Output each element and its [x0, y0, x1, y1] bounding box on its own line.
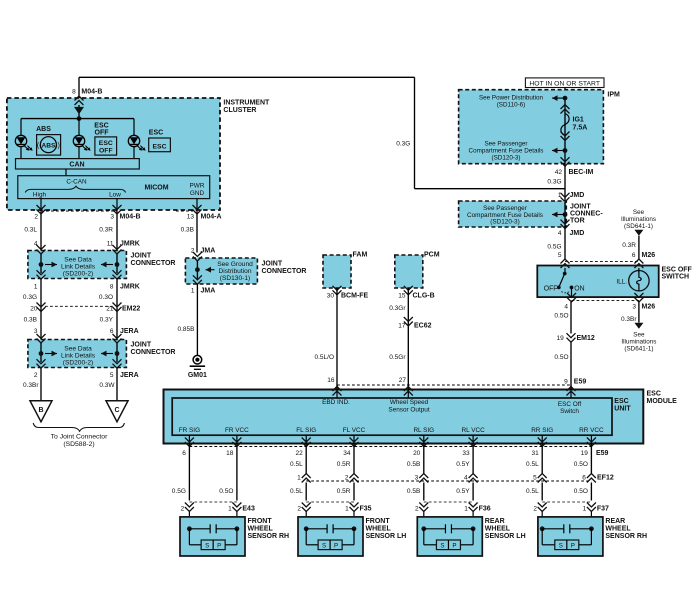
svg-text:16: 16 [327, 377, 335, 384]
svg-text:OFF: OFF [544, 285, 558, 292]
svg-text:FL VCC: FL VCC [343, 427, 366, 434]
svg-text:0.3W: 0.3W [99, 382, 115, 389]
svg-text:To Joint Connector: To Joint Connector [51, 434, 108, 441]
svg-text:22: 22 [295, 450, 303, 457]
svg-text:S: S [559, 543, 563, 550]
svg-text:JMD: JMD [570, 230, 585, 237]
svg-text:FRONT: FRONT [366, 518, 391, 525]
svg-text:RL VCC: RL VCC [461, 427, 485, 434]
svg-text:0.3O: 0.3O [99, 294, 113, 301]
svg-text:0.3Br: 0.3Br [23, 382, 39, 389]
svg-text:CONNEC-: CONNEC- [570, 211, 603, 218]
svg-text:30: 30 [327, 293, 335, 300]
svg-text:JOINT: JOINT [570, 204, 591, 211]
svg-text:CONNECTOR: CONNECTOR [262, 268, 307, 275]
svg-text:High: High [33, 191, 47, 198]
svg-text:(SD641-1): (SD641-1) [624, 346, 653, 353]
svg-text:20: 20 [30, 306, 38, 313]
svg-text:FL SIG: FL SIG [296, 427, 316, 434]
svg-text:FAM: FAM [353, 252, 368, 259]
svg-text:ESC Off: ESC Off [558, 401, 582, 408]
svg-text:1: 1 [464, 506, 468, 513]
svg-text:See Ground: See Ground [217, 261, 253, 268]
svg-text:SENSOR RH: SENSOR RH [605, 533, 647, 540]
svg-text:RR SIG: RR SIG [531, 427, 553, 434]
svg-text:TOR: TOR [570, 218, 585, 225]
svg-text:C-CAN: C-CAN [66, 179, 87, 186]
svg-text:2: 2 [34, 372, 38, 379]
svg-text:0.5Y: 0.5Y [456, 488, 470, 495]
svg-text:IG1: IG1 [573, 117, 584, 124]
svg-text:OFF: OFF [95, 130, 110, 137]
svg-text:See Data: See Data [64, 257, 92, 264]
svg-text:BCM-FE: BCM-FE [341, 293, 369, 300]
svg-text:ESC: ESC [153, 143, 167, 150]
svg-text:CLG-B: CLG-B [413, 293, 435, 300]
svg-text:M04-B: M04-B [81, 88, 102, 95]
svg-text:M26: M26 [642, 252, 656, 259]
svg-text:0.5B: 0.5B [407, 488, 420, 495]
svg-text:E59: E59 [574, 378, 587, 385]
svg-text:Link Details: Link Details [61, 353, 96, 360]
svg-text:EM22: EM22 [122, 306, 140, 313]
svg-text:WHEEL: WHEEL [248, 525, 274, 532]
svg-text:(SD120-3): (SD120-3) [491, 154, 520, 161]
svg-text:WHEEL: WHEEL [485, 525, 511, 532]
svg-text:Compartment Fuse Details: Compartment Fuse Details [469, 147, 544, 154]
svg-text:E43: E43 [242, 506, 255, 513]
svg-text:0.5G: 0.5G [547, 244, 561, 251]
svg-text:See: See [633, 209, 645, 216]
svg-text:(SD200-2): (SD200-2) [63, 271, 93, 278]
svg-text:31: 31 [531, 450, 539, 457]
svg-text:8: 8 [72, 88, 76, 95]
svg-text:(SD641-1): (SD641-1) [624, 223, 653, 230]
svg-text:F35: F35 [360, 506, 372, 513]
svg-text:OFF: OFF [99, 147, 113, 154]
svg-text:0.5O: 0.5O [219, 488, 233, 495]
svg-text:0.3B: 0.3B [181, 227, 194, 234]
svg-text:CAN: CAN [69, 162, 84, 169]
svg-text:JOINT: JOINT [262, 260, 283, 267]
svg-text:HOT IN ON OR START: HOT IN ON OR START [529, 80, 600, 87]
svg-text:ESC OFF: ESC OFF [662, 266, 693, 273]
svg-text:IPM: IPM [607, 91, 620, 98]
svg-text:0.3Gr: 0.3Gr [389, 305, 406, 312]
svg-text:0.5G: 0.5G [172, 488, 186, 495]
svg-text:B: B [38, 407, 43, 414]
svg-text:0.5B: 0.5B [407, 461, 420, 468]
svg-text:9: 9 [564, 378, 568, 385]
svg-text:19: 19 [581, 450, 589, 457]
svg-text:0.3G: 0.3G [396, 140, 410, 147]
svg-text:2: 2 [297, 506, 301, 513]
svg-text:(SD588-2): (SD588-2) [63, 441, 94, 448]
svg-text:4: 4 [564, 303, 568, 310]
svg-text:BEC-IM: BEC-IM [569, 169, 594, 176]
svg-text:ON: ON [574, 285, 584, 292]
svg-text:1: 1 [345, 506, 349, 513]
svg-text:JERA: JERA [120, 372, 139, 379]
svg-text:Illuminations: Illuminations [621, 339, 656, 346]
svg-text:M04-A: M04-A [201, 214, 222, 221]
svg-text:EBD IND.: EBD IND. [322, 399, 350, 406]
svg-text:Illuminations: Illuminations [621, 216, 656, 223]
svg-text:JMRK: JMRK [120, 284, 140, 291]
svg-text:0.5Y: 0.5Y [456, 461, 470, 468]
svg-text:Sensor Output: Sensor Output [388, 406, 429, 413]
svg-text:M04-B: M04-B [120, 214, 141, 221]
svg-text:0.5O: 0.5O [554, 354, 568, 361]
svg-text:13: 13 [187, 214, 195, 221]
svg-text:0.5L: 0.5L [290, 461, 303, 468]
svg-text:JMRK: JMRK [120, 241, 140, 248]
svg-text:SENSOR LH: SENSOR LH [366, 533, 407, 540]
svg-text:WHEEL: WHEEL [366, 525, 392, 532]
svg-text:0.5O: 0.5O [574, 461, 588, 468]
svg-text:((: (( [37, 141, 42, 150]
svg-text:1: 1 [228, 506, 232, 513]
svg-text:ABS: ABS [36, 126, 51, 133]
svg-text:Link Details: Link Details [61, 264, 96, 271]
svg-text:JERA: JERA [120, 328, 139, 335]
svg-text:EF12: EF12 [597, 474, 614, 481]
svg-text:5: 5 [110, 372, 114, 379]
svg-text:(SD120-3): (SD120-3) [490, 219, 519, 226]
svg-text:15: 15 [398, 293, 406, 300]
svg-text:33: 33 [462, 450, 470, 457]
svg-text:CONNECTOR: CONNECTOR [131, 349, 176, 356]
svg-text:4: 4 [558, 230, 562, 237]
svg-text:CONNECTOR: CONNECTOR [131, 260, 176, 267]
svg-text:RL SIG: RL SIG [413, 427, 434, 434]
svg-text:1: 1 [191, 287, 195, 294]
svg-text:INSTRUMENT: INSTRUMENT [223, 100, 270, 107]
svg-text:5: 5 [533, 474, 537, 481]
svg-text:EC62: EC62 [414, 323, 432, 330]
svg-text:6: 6 [632, 252, 636, 259]
svg-text:0.5L: 0.5L [290, 488, 303, 495]
svg-text:C: C [114, 407, 119, 414]
svg-text:RR VCC: RR VCC [579, 427, 604, 434]
svg-text:0.3G: 0.3G [547, 179, 561, 186]
svg-text:UNIT: UNIT [614, 406, 631, 413]
svg-text:ABS: ABS [41, 142, 56, 149]
svg-text:JOINT: JOINT [131, 342, 152, 349]
svg-text:REAR: REAR [485, 518, 505, 525]
svg-text:Switch: Switch [560, 408, 579, 415]
svg-text:20: 20 [413, 450, 421, 457]
svg-text:(SD110-6): (SD110-6) [497, 102, 526, 109]
svg-text:42: 42 [555, 169, 563, 176]
svg-text:ESC: ESC [94, 123, 108, 130]
svg-text:FRONT: FRONT [248, 518, 273, 525]
svg-text:F37: F37 [597, 506, 609, 513]
svg-text:19: 19 [556, 335, 564, 342]
svg-text:SENSOR LH: SENSOR LH [485, 533, 526, 540]
svg-text:11: 11 [107, 241, 114, 248]
svg-text:1: 1 [583, 506, 587, 513]
svg-text:ILL.: ILL. [616, 278, 627, 285]
svg-text:ESC: ESC [99, 140, 113, 147]
svg-text:EM12: EM12 [577, 335, 595, 342]
svg-text:3: 3 [415, 474, 419, 481]
svg-text:F36: F36 [479, 506, 491, 513]
svg-text:0.5Gr: 0.5Gr [389, 354, 406, 361]
svg-text:18: 18 [226, 450, 234, 457]
svg-text:0.3Y: 0.3Y [100, 316, 114, 323]
svg-text:P: P [334, 543, 338, 550]
svg-text:CLUSTER: CLUSTER [223, 107, 256, 114]
svg-text:ESC: ESC [149, 129, 163, 136]
svg-text:JMD: JMD [570, 192, 585, 199]
svg-text:0.5L: 0.5L [526, 488, 539, 495]
svg-text:JMA: JMA [201, 248, 216, 255]
svg-text:WHEEL: WHEEL [605, 525, 631, 532]
svg-text:See: See [633, 332, 645, 339]
svg-text:6: 6 [182, 450, 186, 457]
svg-text:ESC: ESC [614, 398, 628, 405]
svg-text:See Data: See Data [64, 346, 92, 353]
svg-text:P: P [452, 543, 456, 550]
svg-text:2: 2 [181, 506, 185, 513]
svg-text:Wheel Speed: Wheel Speed [390, 399, 429, 406]
svg-text:2: 2 [533, 506, 537, 513]
svg-text:GND: GND [190, 190, 205, 197]
svg-text:5: 5 [558, 252, 562, 259]
svg-text:P: P [571, 543, 575, 550]
svg-text:7.5A: 7.5A [573, 125, 588, 132]
svg-text:0.5L/O: 0.5L/O [314, 354, 334, 361]
svg-text:Low: Low [109, 191, 121, 198]
svg-text:34: 34 [343, 450, 351, 457]
svg-text:0.85B: 0.85B [178, 326, 195, 333]
svg-text:M26: M26 [642, 303, 656, 310]
svg-text:0.5R: 0.5R [337, 488, 351, 495]
svg-text:8: 8 [110, 284, 114, 291]
svg-text:1: 1 [34, 284, 38, 291]
svg-text:S: S [322, 543, 326, 550]
svg-text:0.3B: 0.3B [24, 316, 37, 323]
svg-text:SENSOR RH: SENSOR RH [248, 533, 290, 540]
svg-text:0.3R: 0.3R [99, 227, 113, 234]
svg-text:FR VCC: FR VCC [225, 427, 249, 434]
svg-text:REAR: REAR [605, 518, 625, 525]
svg-text:See Power Distribution: See Power Distribution [479, 95, 544, 102]
svg-text:E59: E59 [596, 450, 609, 457]
svg-text:(SD130-1): (SD130-1) [220, 275, 250, 282]
svg-text:SWITCH: SWITCH [662, 274, 690, 281]
svg-text:PWR: PWR [190, 182, 205, 189]
svg-text:ESC: ESC [647, 391, 661, 398]
svg-text:6: 6 [582, 474, 586, 481]
svg-text:P: P [217, 543, 221, 550]
svg-text:MODULE: MODULE [647, 398, 678, 405]
svg-text:2: 2 [345, 474, 349, 481]
svg-text:1: 1 [297, 474, 301, 481]
svg-text:17: 17 [398, 323, 406, 330]
svg-text:MICOM: MICOM [144, 184, 168, 191]
svg-text:0.5O: 0.5O [574, 488, 588, 495]
svg-text:0.5O: 0.5O [554, 313, 568, 320]
svg-text:2: 2 [34, 214, 38, 221]
svg-text:0.3G: 0.3G [23, 294, 37, 301]
svg-text:2: 2 [415, 506, 419, 513]
svg-text:JOINT: JOINT [131, 253, 152, 260]
svg-text:(SD200-2): (SD200-2) [63, 360, 93, 367]
svg-text:JMA: JMA [201, 287, 216, 294]
svg-text:0.3Br: 0.3Br [621, 316, 637, 323]
svg-text:0.3L: 0.3L [24, 227, 37, 234]
svg-text:PCM: PCM [424, 252, 440, 259]
svg-text:3: 3 [632, 303, 636, 310]
svg-text:FR SIG: FR SIG [179, 427, 200, 434]
svg-text:0.3R: 0.3R [622, 242, 636, 249]
svg-text:GM01: GM01 [188, 372, 207, 379]
svg-text:Distribution: Distribution [219, 268, 252, 275]
svg-text:27: 27 [399, 377, 407, 384]
svg-text:4: 4 [464, 474, 468, 481]
svg-text:3: 3 [110, 214, 114, 221]
svg-text:S: S [440, 543, 444, 550]
svg-text:0.5R: 0.5R [337, 461, 351, 468]
svg-text:S: S [205, 543, 209, 550]
svg-text:See Passenger: See Passenger [484, 140, 527, 147]
svg-text:)): )) [55, 141, 60, 150]
svg-text:0.5L: 0.5L [526, 461, 539, 468]
